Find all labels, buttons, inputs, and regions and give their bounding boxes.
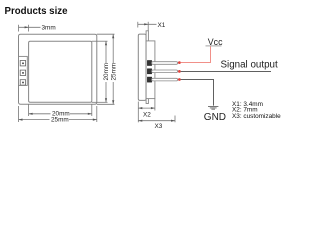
side view panel body <box>138 34 146 100</box>
dimension 20mm vertical <box>92 41 108 102</box>
dimension X3 <box>138 116 175 123</box>
pin 1 base <box>147 61 151 66</box>
svg-text:X1: X1 <box>158 22 166 29</box>
ground <box>208 107 218 110</box>
svg-text:X3: customizable: X3: customizable <box>232 113 281 120</box>
connector pin 2 <box>20 70 25 75</box>
svg-text:X2: X2 <box>143 111 151 118</box>
pin 3 lead <box>152 78 178 81</box>
pin 2 base <box>147 69 151 74</box>
dimension 3mm <box>19 25 41 32</box>
front view display window <box>29 41 92 102</box>
front view outer frame <box>19 34 97 104</box>
pin 2 lead <box>152 70 178 73</box>
junction dot GND <box>178 78 181 81</box>
svg-text:20mm: 20mm <box>103 63 110 81</box>
svg-text:25mm: 25mm <box>110 63 117 81</box>
svg-text:25mm: 25mm <box>51 116 69 123</box>
connector pin 3 <box>20 80 25 85</box>
dimension 25mm vertical <box>97 34 115 104</box>
pin 3 base <box>147 77 151 82</box>
svg-text:X3: X3 <box>155 123 163 130</box>
connector pin 1 <box>20 61 25 66</box>
junction dot Vcc <box>178 61 181 64</box>
signal output wire <box>181 71 271 73</box>
dimension X2 <box>138 99 155 123</box>
junction dot signal <box>178 70 181 73</box>
pin 1 lead <box>152 62 178 65</box>
GND wire <box>181 80 214 106</box>
side view PCB <box>146 31 148 104</box>
svg-text:Vcc: Vcc <box>208 37 223 47</box>
side view header housing <box>146 41 155 99</box>
connector J1 housing <box>19 56 28 85</box>
svg-text:Products size: Products size <box>5 6 69 17</box>
Vcc terminal line <box>206 45 222 47</box>
Vcc wire <box>181 46 211 62</box>
svg-text:Signal output: Signal output <box>221 59 278 70</box>
svg-text:3mm: 3mm <box>42 25 56 32</box>
svg-text:GND: GND <box>204 112 226 123</box>
dimension X1 <box>138 22 157 31</box>
dimension 25mm bottom <box>19 106 97 122</box>
dimension 20mm bottom <box>29 104 92 116</box>
